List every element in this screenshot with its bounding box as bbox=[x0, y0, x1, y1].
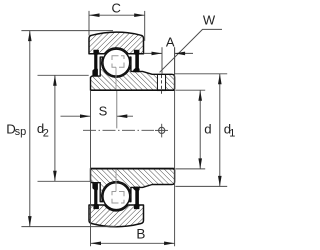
svg-text:B: B bbox=[136, 227, 145, 242]
svg-text:1: 1 bbox=[229, 127, 235, 139]
svg-text:sp: sp bbox=[15, 126, 27, 138]
svg-text:A: A bbox=[166, 34, 175, 49]
svg-text:d: d bbox=[204, 121, 211, 136]
svg-text:C: C bbox=[112, 0, 121, 15]
svg-text:W: W bbox=[203, 13, 216, 28]
svg-text:2: 2 bbox=[43, 127, 49, 139]
svg-text:S: S bbox=[99, 104, 108, 119]
